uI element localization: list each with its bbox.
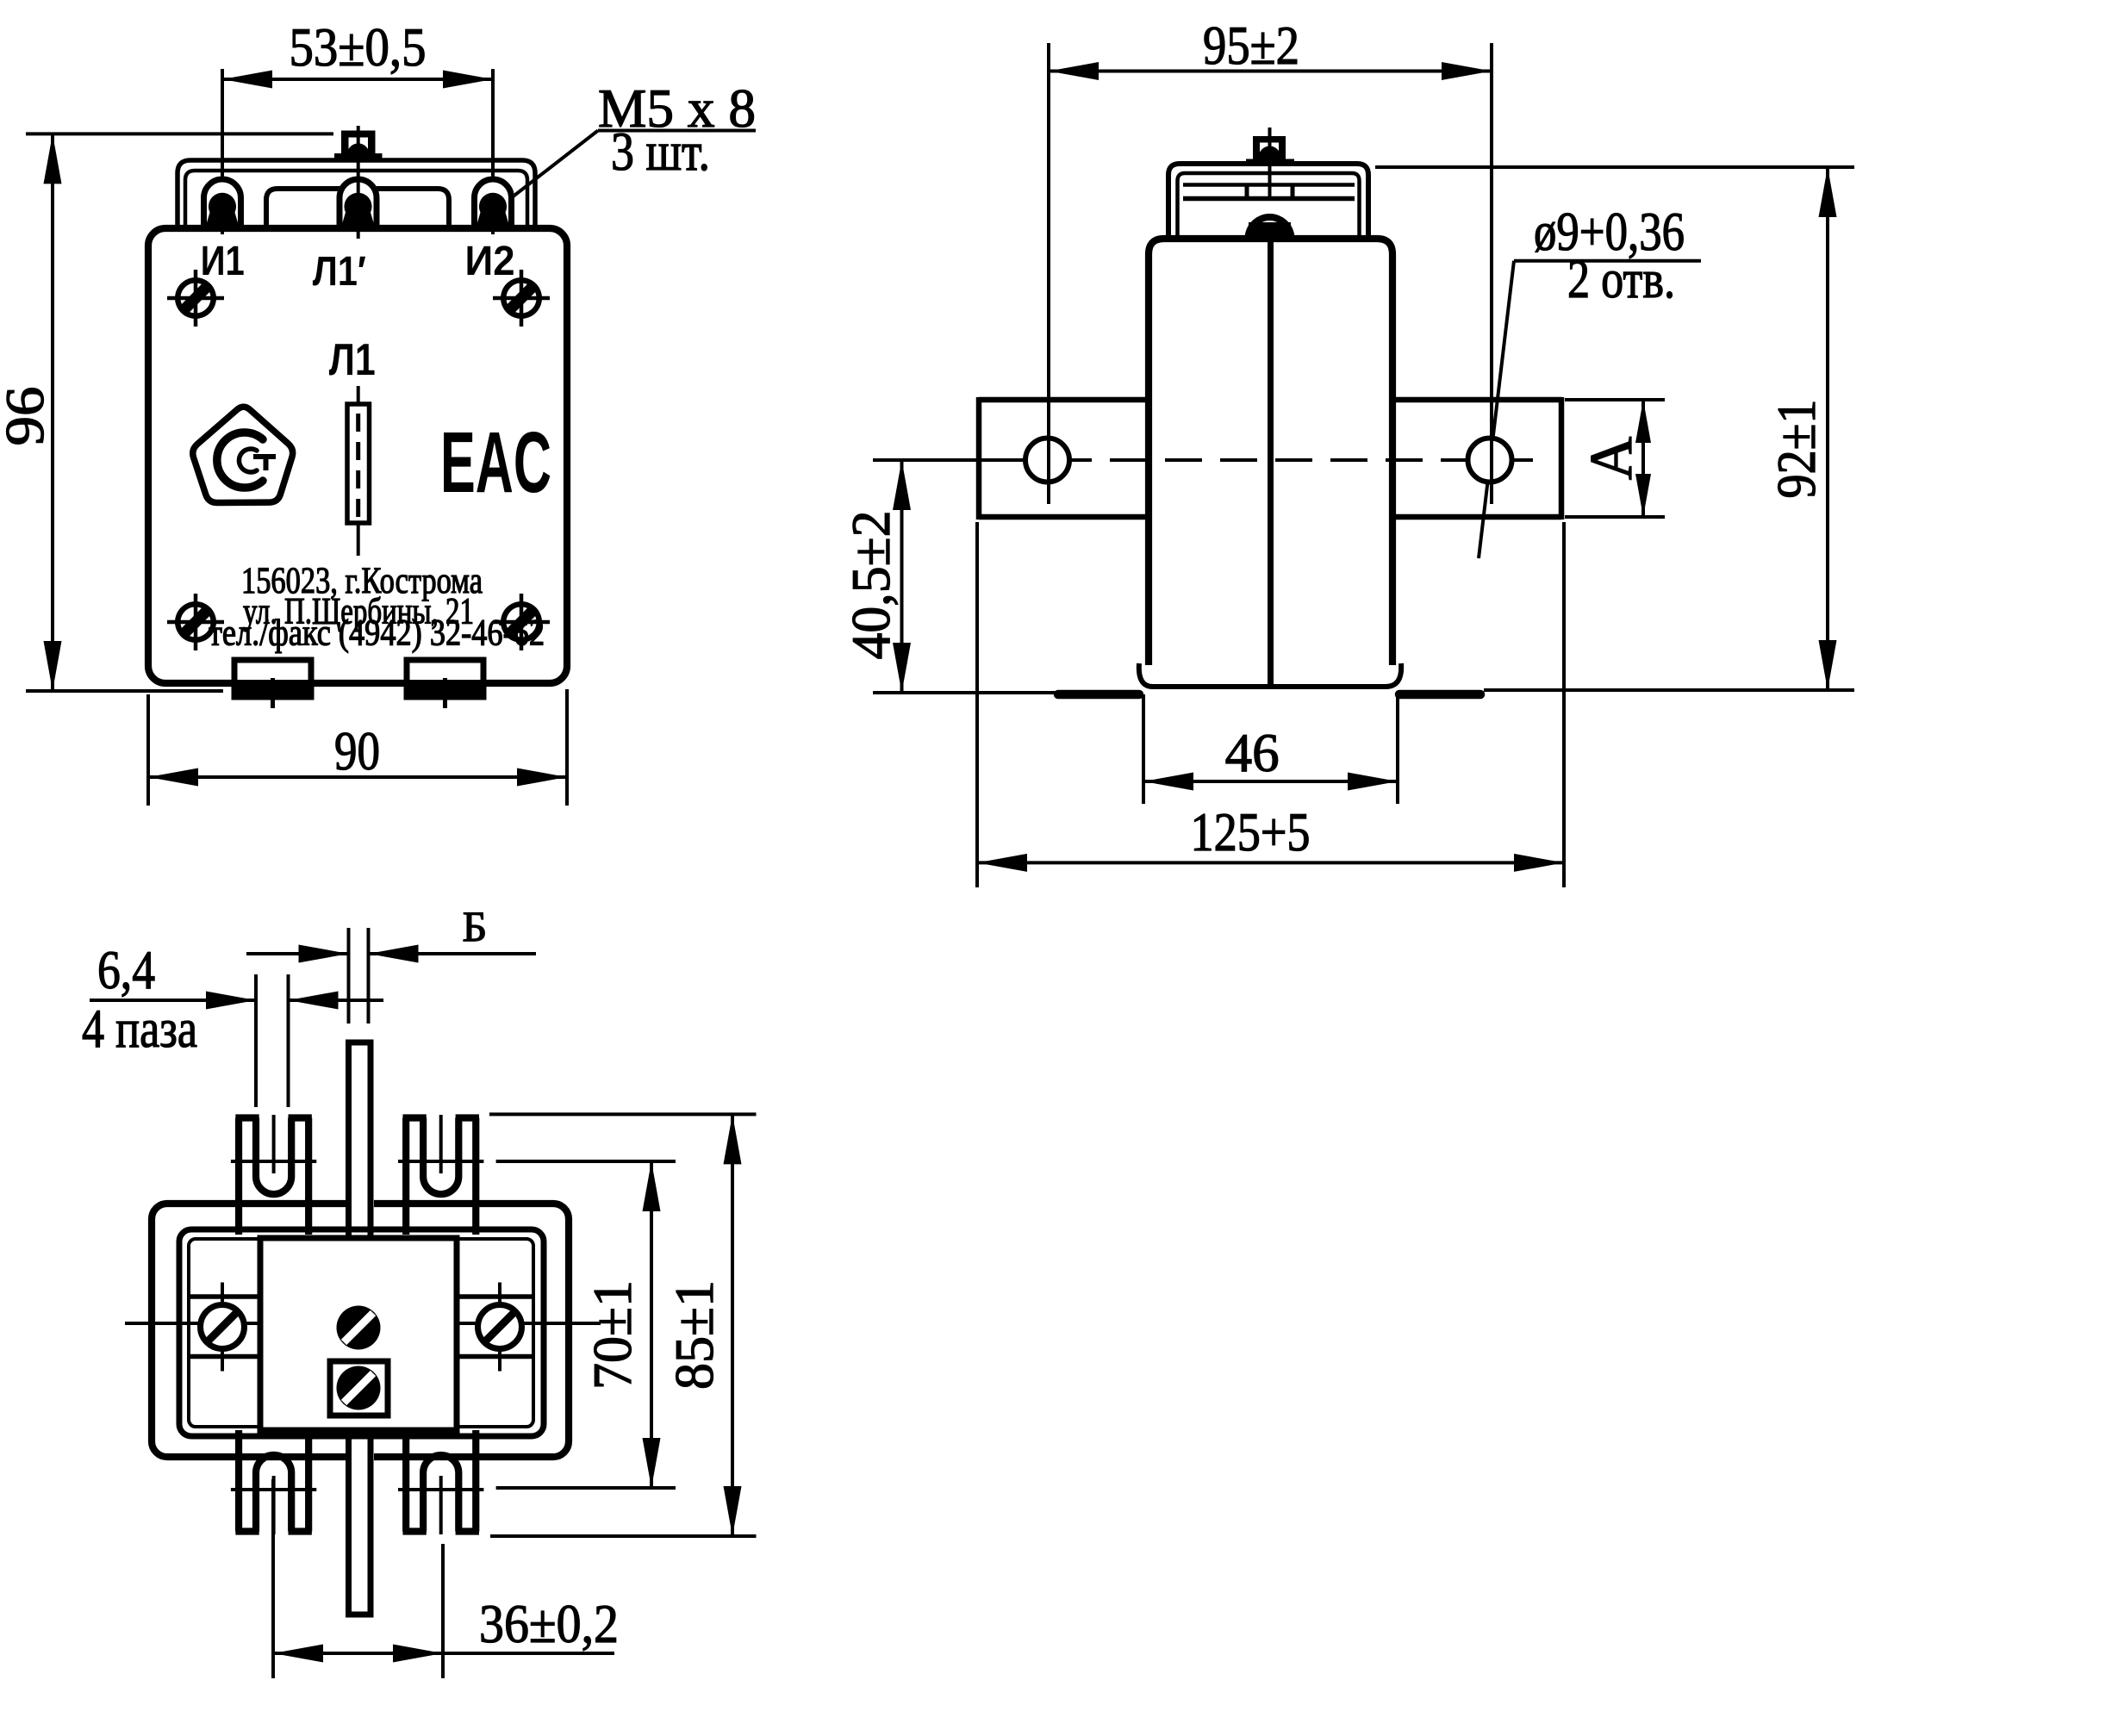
svg-text:Л1′: Л1′: [313, 249, 366, 295]
svg-text:36±0,2: 36±0,2: [479, 1593, 619, 1654]
svg-text:3 шт.: 3 шт.: [611, 121, 710, 182]
svg-text:2 отв.: 2 отв.: [1567, 248, 1675, 309]
svg-text:53±0,5: 53±0,5: [290, 16, 427, 78]
svg-text:И1: И1: [201, 239, 245, 284]
svg-text:96: 96: [0, 387, 55, 446]
svg-text:46: 46: [1225, 722, 1280, 783]
svg-text:6,4: 6,4: [97, 939, 155, 1000]
svg-text:EAC: EAC: [440, 414, 551, 511]
svg-text:70±1: 70±1: [582, 1280, 643, 1390]
svg-text:85±1: 85±1: [663, 1280, 725, 1390]
svg-text:тел./факс (4942) 32-46-62: тел./факс (4942) 32-46-62: [209, 613, 545, 654]
svg-text:И2: И2: [465, 239, 515, 284]
svg-text:125+5: 125+5: [1191, 801, 1311, 862]
svg-text:Б: Б: [463, 902, 488, 950]
svg-text:Л1: Л1: [329, 335, 376, 385]
svg-text:95±2: 95±2: [1203, 15, 1299, 76]
svg-text:А: А: [1579, 436, 1645, 480]
svg-text:40,5±2: 40,5±2: [840, 511, 901, 660]
svg-text:4 паза: 4 паза: [82, 998, 197, 1059]
svg-text:92±1: 92±1: [1766, 400, 1827, 499]
svg-text:90: 90: [334, 720, 380, 781]
